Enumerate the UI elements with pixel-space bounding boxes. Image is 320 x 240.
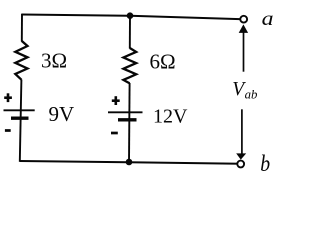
svg-text:b: b <box>260 150 270 176</box>
svg-text:12V: 12V <box>153 106 188 128</box>
svg-text:ab: ab <box>245 88 258 102</box>
svg-text:3Ω: 3Ω <box>41 49 67 73</box>
svg-text:6Ω: 6Ω <box>150 49 176 73</box>
svg-text:9V: 9V <box>49 102 75 126</box>
svg-text:a: a <box>262 8 274 30</box>
